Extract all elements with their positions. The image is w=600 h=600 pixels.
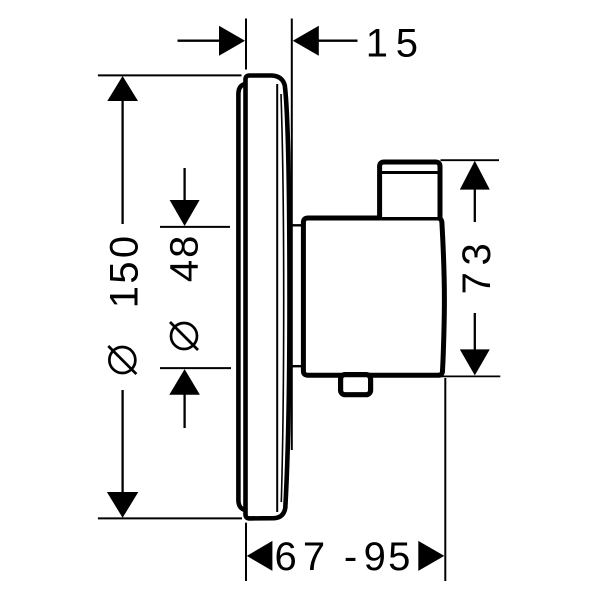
dim 48: lower arrow (points up) [169,369,200,395]
dim 150: diameter symbol [109,347,135,373]
plate front face inner curve [281,94,284,502]
dim 15: right extension line [291,19,293,451]
dim 73: top arrow (points up) [460,161,490,190]
dim 15: left arrow [219,26,245,56]
dim 73: bottom extension line [437,375,500,377]
plate inner front line [276,84,278,512]
dim 15: left extension line [245,19,247,70]
svg-text:150: 150 [103,236,147,308]
dim 73: lower tail [474,313,476,350]
dim 48: lower arrow tail [183,394,185,428]
dim 73: bottom arrow (points down) [460,349,490,375]
dim 67-95: left arrow (points left) [247,541,273,571]
dim 15: right tail [318,40,358,42]
dim 15: right arrow [293,26,319,56]
bottom tab [341,375,371,395]
dim 150: bottom arrow [107,492,138,518]
dim 48: upper arrow tail [183,168,185,203]
escutcheon plate outline [246,76,290,519]
escutcheon plate back rim [238,84,247,511]
valve body [303,218,444,375]
neck stub bottom [289,365,304,367]
knob cap seam [382,171,439,174]
dim 48: upper arrow (points down) [170,200,200,226]
dim 67-95: right extension line [444,378,446,581]
dim 150: top extension line [98,74,242,76]
dim 150: upper tail [121,101,123,224]
dim 67-95: right arrow (points right) [418,541,444,571]
dim 48: top extension line [160,226,230,228]
handle knob outline [380,162,440,218]
dim 15: left tail [178,40,222,42]
dim 67-95: left extension line [245,523,247,581]
dim 73: upper tail [474,189,476,222]
dim 48: bottom extension line [160,367,231,369]
dim 73: top extension line [441,159,500,161]
handle knob fill [380,162,440,217]
dim 150: top arrow [107,76,138,101]
dim 48: diameter symbol [171,323,197,349]
dim 150: bottom extension line [98,517,242,519]
dim 150: lower tail [121,390,123,492]
neck stub top [289,224,304,226]
